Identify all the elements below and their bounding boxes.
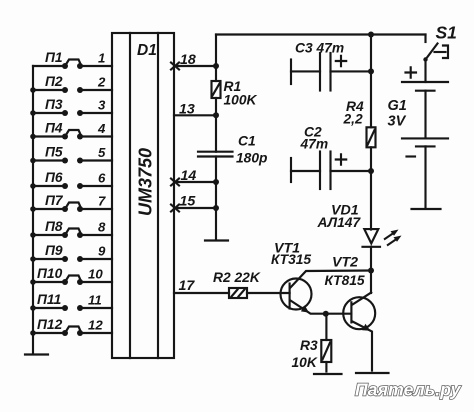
svg-text:11: 11 — [88, 293, 102, 308]
svg-text:П10: П10 — [37, 266, 63, 281]
pin 15 wire — [171, 194, 219, 212]
svg-text:П3: П3 — [45, 97, 63, 112]
wire top rail — [216, 33, 426, 35]
svg-text:П8: П8 — [45, 219, 63, 234]
svg-text:5: 5 — [98, 145, 106, 160]
pin 13 wire — [174, 102, 219, 119]
switch П4 (closed) pin 4 — [30, 121, 112, 140]
svg-text:UM3750: UM3750 — [136, 148, 156, 216]
capacitor C1 — [198, 134, 267, 166]
svg-text:АЛ147: АЛ147 — [317, 215, 362, 230]
junction R3 node — [323, 311, 329, 317]
net B column wire — [370, 35, 372, 294]
svg-text:14: 14 — [181, 168, 197, 184]
switch П10 (closed) pin 10 — [30, 266, 112, 285]
svg-text:П4: П4 — [45, 121, 63, 136]
battery G1 — [388, 60, 449, 210]
svg-text:3: 3 — [98, 98, 106, 113]
svg-text:П9: П9 — [45, 243, 63, 258]
transistor VT1 КТ315 — [271, 241, 371, 314]
svg-text:C1: C1 — [238, 134, 256, 149]
svg-text:9: 9 — [98, 244, 106, 259]
svg-text:2,2: 2,2 — [343, 112, 364, 127]
svg-text:R3: R3 — [300, 338, 318, 353]
svg-text:КТ815: КТ815 — [325, 273, 365, 288]
transistor VT2 КТ815 — [325, 255, 376, 371]
switch П9 (open) pin 9 — [30, 243, 112, 262]
net column R1/C1 wire — [215, 35, 217, 239]
svg-text:П1: П1 — [45, 50, 63, 65]
junction C3 / net B — [368, 68, 374, 74]
svg-text:S1: S1 — [436, 23, 457, 43]
svg-text:П11: П11 — [37, 292, 61, 307]
capacitor C2 — [291, 125, 371, 190]
svg-text:4: 4 — [97, 121, 106, 136]
svg-text:П6: П6 — [45, 170, 63, 185]
resistor R3 — [292, 314, 332, 372]
junction top rail / net B — [368, 32, 374, 38]
svg-text:47m: 47m — [300, 137, 329, 152]
junction VD1 / collectors — [368, 268, 374, 274]
left common bus — [32, 66, 34, 353]
svg-text:П12: П12 — [37, 317, 63, 332]
svg-text:10: 10 — [88, 267, 103, 282]
svg-text:6: 6 — [98, 171, 106, 186]
switch S1 — [423, 23, 457, 62]
svg-text:17: 17 — [179, 278, 196, 294]
pin 18 wire — [171, 52, 219, 70]
switch П2 (open) pin 2 — [30, 74, 112, 93]
switch П7 (closed) pin 7 — [30, 193, 112, 212]
pin 17 wire to R2 — [174, 278, 229, 294]
svg-text:15: 15 — [180, 194, 197, 210]
svg-text:2: 2 — [97, 75, 106, 90]
svg-text:VT2: VT2 — [332, 255, 358, 271]
resistor R4 — [343, 99, 376, 147]
svg-text:13: 13 — [179, 102, 195, 118]
resistor R1 — [212, 79, 258, 108]
svg-text:П7: П7 — [45, 193, 64, 208]
IC D1 UM3750 body — [112, 33, 174, 358]
switch П3 (open) pin 3 — [30, 97, 112, 116]
switch П1 (closed) pin 1 — [33, 50, 112, 69]
svg-text:10K: 10K — [292, 355, 318, 370]
switch П5 (open) pin 5 — [30, 145, 112, 164]
pin 14 wire — [171, 168, 219, 186]
svg-text:R2 22K: R2 22K — [213, 270, 261, 285]
switch П11 (open) pin 11 — [30, 292, 112, 311]
svg-text:D1: D1 — [137, 42, 157, 59]
svg-text:1: 1 — [98, 51, 105, 66]
switch П6 (open) pin 6 — [30, 170, 112, 189]
svg-text:Паятель.ру: Паятель.ру — [355, 380, 462, 400]
LED VD1 — [317, 203, 402, 247]
svg-text:П5: П5 — [45, 145, 63, 160]
svg-text:18: 18 — [180, 52, 196, 68]
svg-text:П2: П2 — [45, 74, 63, 89]
ground (VT2 emitter) — [356, 372, 389, 374]
resistor R2 — [213, 270, 290, 298]
svg-text:G1: G1 — [388, 98, 407, 114]
svg-text:180p: 180p — [236, 151, 267, 166]
ground (left bus) — [25, 353, 48, 355]
svg-text:8: 8 — [98, 220, 106, 235]
junction C2 / net B — [368, 168, 374, 174]
svg-text:3V: 3V — [388, 114, 407, 130]
svg-text:100K: 100K — [224, 93, 258, 108]
switch П12 (closed) pin 12 — [30, 317, 112, 336]
capacitor C3 — [291, 41, 371, 91]
ground (R3) — [314, 373, 342, 375]
ground (C1 net) — [205, 239, 228, 241]
svg-text:7: 7 — [98, 194, 106, 209]
switch П8 (closed) pin 8 — [30, 219, 112, 238]
svg-text:КТ315: КТ315 — [271, 252, 311, 267]
svg-text:12: 12 — [88, 318, 103, 333]
